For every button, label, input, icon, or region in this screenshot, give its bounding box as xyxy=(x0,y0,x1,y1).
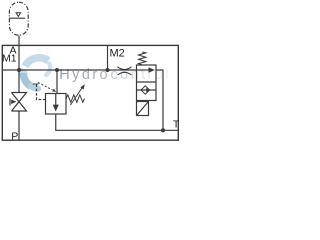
svg-text:M2: M2 xyxy=(110,48,125,60)
svg-text:Hydro: Hydro xyxy=(59,67,110,83)
svg-text:control: control xyxy=(111,67,171,83)
svg-text:M1: M1 xyxy=(2,53,17,65)
svg-text:P: P xyxy=(11,130,18,142)
svg-text:T: T xyxy=(173,118,180,130)
